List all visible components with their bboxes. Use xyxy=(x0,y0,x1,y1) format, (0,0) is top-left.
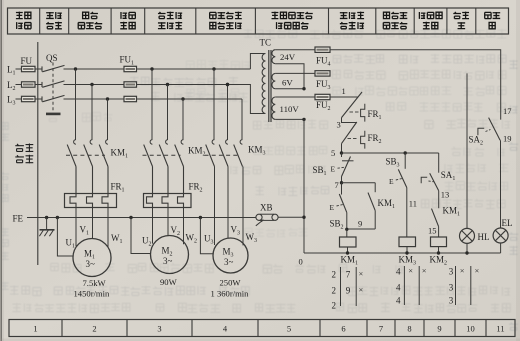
wire V1 xyxy=(92,208,94,239)
transformer TC secondary 24V winding xyxy=(272,50,275,64)
wire control bus 5 xyxy=(342,152,439,154)
svg-text:6: 6 xyxy=(341,324,345,334)
fuse FU pole 3 xyxy=(16,98,22,100)
fuse FU1 pole 3 xyxy=(124,96,137,101)
node tap KM1 pole 3 xyxy=(106,97,109,100)
svg-text:2: 2 xyxy=(332,286,337,296)
motor M3 xyxy=(213,238,248,273)
wire 110V top to FU2 xyxy=(275,96,315,98)
contactor KM1 main contact pole 2 xyxy=(90,140,92,145)
header function-zone table xyxy=(8,8,509,34)
wire drop to KM3 pole 3 xyxy=(241,99,243,140)
pushbutton SB1 (stop, NC) xyxy=(341,153,343,157)
svg-text:4: 4 xyxy=(396,267,401,277)
wire L2 to TC primary xyxy=(228,85,266,114)
wire node 7 branch to KM1 aux xyxy=(342,182,376,184)
switch QS pole 1 xyxy=(41,66,43,71)
svg-text:90W: 90W xyxy=(160,277,178,287)
svg-text:3~: 3~ xyxy=(86,259,96,269)
node 5 xyxy=(340,151,343,154)
svg-text:7: 7 xyxy=(379,324,383,334)
wire FU4 to SA2 xyxy=(330,50,501,120)
fuse FU4 xyxy=(315,47,330,52)
transformer TC core xyxy=(268,50,270,122)
wire 6V bottom to 0 xyxy=(275,88,304,90)
wire L1 rail xyxy=(64,68,125,70)
svg-text:7: 7 xyxy=(346,270,351,280)
fuse FU3 xyxy=(315,71,330,76)
wire M3 frame earth xyxy=(200,218,213,254)
wire SA2 to EL xyxy=(500,140,502,228)
wire L3 rail after FU1 xyxy=(137,98,243,100)
contactor KM2 main contact pole 2 xyxy=(166,140,168,145)
svg-text:9: 9 xyxy=(346,286,351,296)
svg-text:×: × xyxy=(422,266,427,276)
wire 24V top to FU4 xyxy=(275,49,315,51)
svg-text:×: × xyxy=(408,266,413,276)
node 9 xyxy=(347,228,375,230)
contactor coil KM3 xyxy=(399,237,416,247)
contactor KM1 linkage xyxy=(66,154,105,156)
wire drop to KM2 pole 1 xyxy=(151,69,153,140)
illumination lamp EL xyxy=(493,228,508,243)
thermal relay FR1 heater element xyxy=(87,194,93,208)
svg-text:EL: EL xyxy=(502,218,513,228)
thermal relay FR1 heater element xyxy=(102,194,108,208)
thermal relay FR2 heater element xyxy=(178,194,184,208)
svg-text:11: 11 xyxy=(409,199,417,209)
transformer TC secondary 110V winding xyxy=(272,97,275,119)
wire V2 xyxy=(167,208,169,236)
svg-text:3: 3 xyxy=(337,120,341,130)
svg-text:4: 4 xyxy=(396,296,401,306)
wire node 3 jog xyxy=(342,118,357,123)
thermal relay FR2 heater element xyxy=(147,194,153,208)
wire L1 to TC primary xyxy=(250,54,265,70)
pushbutton SB3 (rapid move, NO) xyxy=(404,153,406,169)
svg-text:2: 2 xyxy=(332,270,337,280)
svg-text:XB: XB xyxy=(260,203,273,213)
pushbutton SB2 (start, NO) xyxy=(341,183,343,195)
svg-text:6V: 6V xyxy=(282,78,293,88)
contactor KM2 main contact pole 3 xyxy=(181,140,183,145)
wire M2 frame earth xyxy=(131,218,151,254)
wire 6V top to FU3 xyxy=(275,72,315,74)
node 7 xyxy=(340,181,343,184)
svg-text:QS: QS xyxy=(46,53,58,63)
node tap KM1 pole 1 xyxy=(74,67,77,70)
transformer TC secondary 6V winding xyxy=(272,73,275,88)
wire SB2 to node 9 xyxy=(346,213,348,230)
svg-text:E: E xyxy=(330,203,335,212)
wire drop to KM3 pole 1 xyxy=(213,69,215,140)
motor M1 xyxy=(73,239,111,277)
ground symbol on FE xyxy=(46,218,48,230)
svg-text:9: 9 xyxy=(358,219,362,229)
wire V3 xyxy=(227,167,229,239)
contactor KM3 linkage xyxy=(205,154,240,156)
thermal relay FR1 heater element xyxy=(70,194,76,208)
svg-text:3~: 3~ xyxy=(224,257,234,267)
transformer TC primary winding xyxy=(262,54,265,114)
wire to KM1 coil xyxy=(346,229,348,237)
svg-text:3: 3 xyxy=(449,296,454,306)
wire W3 xyxy=(242,167,244,246)
thermal relay FR2 heater element xyxy=(162,194,168,208)
thermal relay FR1 NC contact xyxy=(342,92,363,118)
wire to KM2 coil xyxy=(438,227,440,237)
svg-text:7.5kW: 7.5kW xyxy=(83,278,107,288)
svg-text:11: 11 xyxy=(496,324,504,334)
svg-text:8: 8 xyxy=(407,324,411,334)
equipment boundary line xyxy=(37,42,39,265)
thermal relay FR2 heater box xyxy=(144,194,192,208)
wire U1 xyxy=(75,208,77,247)
contactor KM1 main contact pole 1 xyxy=(74,140,76,145)
svg-text:24V: 24V xyxy=(280,52,296,62)
svg-text:3: 3 xyxy=(449,283,454,293)
wire drop to KM1 pole 3 xyxy=(107,99,109,140)
svg-text:E: E xyxy=(331,165,336,174)
wire SB1 to node 7 xyxy=(341,177,343,183)
svg-text:2: 2 xyxy=(92,324,96,334)
wire U2 xyxy=(152,208,154,244)
wire W1 xyxy=(107,208,109,248)
wire U3 xyxy=(214,167,216,246)
svg-text:5: 5 xyxy=(287,324,291,334)
wire FE earth bus xyxy=(27,217,256,219)
contactor KM2 linkage xyxy=(143,154,181,156)
wire L2 rail after FU1 xyxy=(137,84,251,86)
svg-text:FE: FE xyxy=(13,214,24,224)
wire L1 rail after FU1 xyxy=(137,68,251,70)
switch QS linkage xyxy=(52,63,54,112)
switch QS pole 2 xyxy=(41,82,43,87)
wire W2 xyxy=(183,208,185,245)
wire drop to KM2 pole 2 xyxy=(167,85,169,141)
svg-text:13: 13 xyxy=(441,190,450,200)
label equipment boundary (she bei jie xian) xyxy=(15,144,24,151)
wire drop to KM2 pole 3 xyxy=(182,99,184,140)
fuse FU1 pole 2 xyxy=(124,82,137,87)
wire drop to KM3 pole 2 xyxy=(227,85,229,141)
KM2 contact table xyxy=(455,266,457,305)
wire FU3 to HL xyxy=(466,73,468,228)
fuse FU pole 1 xyxy=(16,68,22,70)
svg-text:HL: HL xyxy=(478,232,490,242)
connector XB arrow xyxy=(256,220,263,225)
svg-text:4: 4 xyxy=(396,283,401,293)
wire 110V bottom to 0 xyxy=(275,118,304,120)
thermal relay FR1 heater box xyxy=(65,194,117,208)
wire trunk to node 5 xyxy=(341,144,343,153)
wire FU2 to FR1 xyxy=(330,96,359,98)
svg-text:1: 1 xyxy=(342,86,346,96)
svg-text:2: 2 xyxy=(332,301,337,311)
svg-text:9: 9 xyxy=(437,324,441,334)
svg-text:110V: 110V xyxy=(280,104,300,114)
svg-text:3~: 3~ xyxy=(163,256,173,266)
wire 24V bottom to 0 xyxy=(275,64,304,89)
thermal relay FR2 NC contact xyxy=(342,122,357,144)
KM3 contact table xyxy=(403,266,405,305)
svg-text:10: 10 xyxy=(466,324,475,334)
node tap KM2 pole 3 xyxy=(181,97,184,100)
svg-text:1 360r/min: 1 360r/min xyxy=(211,289,250,299)
svg-text:1: 1 xyxy=(33,324,37,334)
svg-text:×: × xyxy=(475,266,480,276)
svg-text:3: 3 xyxy=(157,324,161,334)
svg-text:×: × xyxy=(359,269,364,279)
svg-text:5: 5 xyxy=(331,148,335,158)
wire L3 rail xyxy=(64,98,125,100)
contactor KM1 main contact pole 3 xyxy=(106,140,108,145)
contactor coil KM2 xyxy=(431,237,447,247)
bottom section-number strip xyxy=(9,320,515,337)
svg-text:FU: FU xyxy=(21,56,33,66)
fuse FU pole 2 xyxy=(16,84,22,86)
node tap KM2 pole 1 xyxy=(150,67,153,70)
svg-text:TC: TC xyxy=(260,38,272,48)
node tap KM3 pole 1 xyxy=(212,67,215,70)
switch QS pole 3 xyxy=(41,96,43,101)
svg-text:E: E xyxy=(389,177,394,186)
wire drop to KM1 pole 2 xyxy=(91,85,93,141)
fuse FU2 xyxy=(315,94,330,99)
contactor KM2 main contact pole 1 xyxy=(150,140,152,145)
svg-text:0: 0 xyxy=(299,257,303,267)
contactor KM1 auxiliary contact (cooling) xyxy=(438,191,440,208)
wire M1 frame earth xyxy=(57,218,73,257)
wire drop to KM1 pole 1 xyxy=(75,69,77,140)
svg-text:×: × xyxy=(359,285,364,295)
svg-text:17: 17 xyxy=(503,106,512,116)
contactor KM1 auxiliary self-hold contact xyxy=(374,183,376,193)
wire 0 line down xyxy=(303,119,305,253)
wire SB3 to KM3 coil xyxy=(406,188,408,237)
switch QS handle bar xyxy=(46,113,61,116)
switch SA1 (cooling pump) xyxy=(438,153,440,173)
svg-text:15: 15 xyxy=(428,226,437,236)
node tap KM2 pole 2 xyxy=(166,83,169,86)
wire 0 return bus xyxy=(304,252,501,254)
KM1 contact table xyxy=(340,267,342,306)
svg-text:7: 7 xyxy=(335,180,339,190)
svg-text:×: × xyxy=(460,266,465,276)
motor M2 xyxy=(151,236,189,274)
fuse FU1 pole 1 xyxy=(124,66,137,71)
svg-text:1450r/min: 1450r/min xyxy=(74,289,111,299)
node tap KM1 pole 2 xyxy=(90,83,93,86)
contactor KM3 main contact pole 3 xyxy=(240,140,242,145)
svg-text:19: 19 xyxy=(503,134,512,144)
node tap KM3 pole 2 xyxy=(226,83,229,86)
signal lamp HL xyxy=(460,228,475,243)
svg-text:250W: 250W xyxy=(220,278,242,288)
wire L2 rail xyxy=(64,84,125,86)
switch SA2 (illumination) xyxy=(489,118,501,141)
svg-text:3: 3 xyxy=(449,267,454,277)
contactor KM3 main contact pole 2 xyxy=(226,140,228,145)
contactor coil KM1 xyxy=(340,237,357,247)
contactor KM3 main contact pole 1 xyxy=(212,140,214,145)
